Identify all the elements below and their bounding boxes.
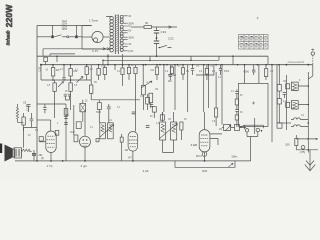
band filter shield box	[239, 83, 269, 126]
arrow feed B+	[169, 26, 173, 28]
electrolytic cap C26	[301, 146, 305, 150]
potentiometer arrow P3	[77, 77, 84, 83]
loop coil L6	[294, 125, 301, 127]
wire: transformer bottom lead	[108, 54, 123, 65]
wire: vertical x286.4	[285, 75, 287, 130]
resistor R6	[54, 80, 56, 83]
wire: bus2	[103, 59, 219, 61]
voltage selector disc	[92, 31, 103, 42]
tube V4 EBC	[199, 130, 210, 152]
resistor R3	[86, 65, 88, 67]
volume control box P2	[142, 81, 144, 86]
speaker LS	[5, 145, 13, 162]
fuse Si 30	[144, 26, 152, 29]
output transformer T2	[14, 148, 22, 158]
main bottom bus	[15, 160, 251, 162]
wire: coil links	[298, 86, 308, 105]
resistor R21 right col	[277, 99, 281, 105]
resistor R23	[120, 137, 123, 142]
wire: extra drops bus1/bus2	[57, 56, 233, 64]
wire: mains lower lead	[37, 36, 51, 38]
resistor R1	[52, 65, 54, 68]
wire: heater rail	[43, 48, 105, 50]
pot arrow P2	[141, 81, 152, 88]
resistor R26 100ohm	[295, 138, 298, 145]
capacitor C33	[154, 31, 159, 33]
IF can D	[171, 122, 177, 140]
resistor R4	[98, 65, 100, 69]
wire: links y75	[168, 74, 214, 76]
RF coil L1	[291, 82, 298, 90]
capacitor C23 above cans	[107, 104, 111, 123]
wire: drops from bus3 mid	[115, 65, 123, 70]
junction dot	[156, 37, 158, 39]
wire: vertical x62.7	[65, 104, 67, 161]
socket bracket	[245, 118, 264, 137]
wire: y99.8 link	[91, 99, 140, 101]
resistor R17	[265, 65, 267, 69]
heater arrows	[103, 48, 110, 50]
resistor R14	[182, 65, 184, 68]
capacitor C18 thick pair	[32, 154, 36, 156]
field winding zigzag upper left	[16, 108, 18, 119]
wire: to voltage selector	[81, 26, 83, 50]
tube V1 grid box	[39, 137, 43, 141]
scan mark left edge	[0, 144, 2, 154]
capacitor C21	[64, 117, 68, 119]
wire: short link	[43, 49, 75, 56]
wire: detector links	[222, 65, 246, 128]
capacitor C13	[150, 105, 153, 107]
tuning arrow across cans AB	[100, 125, 114, 138]
tuning arrow across cans CD	[160, 124, 178, 139]
wire: bus1 HT	[37, 55, 268, 57]
capacitor C24 above V3	[132, 112, 136, 114]
phono socket A	[245, 129, 248, 132]
capacitor C16 left col	[235, 110, 238, 116]
resistor R2	[70, 65, 72, 69]
resistor R18 left col	[235, 99, 238, 105]
V2 right pin box	[96, 139, 99, 142]
junction dots bus3 row	[52, 55, 309, 65]
capacitor C25	[146, 126, 150, 128]
resistor R22 upper left	[23, 113, 25, 117]
potentiometer arrow P1	[58, 82, 64, 88]
IF can A	[100, 123, 106, 139]
wire: rectifier output	[131, 26, 144, 28]
transformer T1 primary winding	[110, 16, 114, 52]
node bus3 start	[40, 64, 42, 66]
stage3 coupling boxes	[146, 97, 150, 104]
resistor R5	[104, 65, 106, 68]
trimmer CT1 (box with X)	[82, 100, 84, 104]
wire: terminal stubs	[53, 26, 77, 36]
wire: corner line 2	[296, 149, 318, 151]
resistor R15	[206, 65, 208, 69]
resistor R11	[135, 65, 137, 68]
IF can B	[108, 123, 114, 139]
switch S2 tone	[160, 45, 172, 47]
resistor R7	[70, 80, 72, 83]
resistor R12	[156, 65, 158, 67]
stray mark	[257, 17, 259, 19]
plus mark center	[252, 102, 255, 105]
junction dots	[257, 64, 259, 66]
transformer secondary taps	[123, 16, 131, 51]
wire: corner bus1 down	[267, 56, 269, 64]
field coil L3	[22, 149, 32, 151]
switch S1 mains	[51, 35, 54, 38]
wire: left main vertical rail	[36, 26, 38, 161]
antenna terminal	[311, 52, 314, 55]
capacitor C19	[30, 113, 34, 127]
wire: loop links	[291, 120, 308, 127]
transformer T1 core	[115, 15, 118, 55]
capacitor C22	[64, 123, 68, 125]
resistor R13	[171, 65, 173, 67]
resistor R16	[149, 93, 153, 103]
wire: can leads	[163, 112, 174, 153]
tube V2 magic eye AM2	[80, 136, 91, 147]
ground arrow	[309, 150, 311, 170]
capacitor C30 near bus1	[44, 57, 48, 61]
capacitor C5 left column	[43, 104, 46, 113]
capacitor C1	[62, 65, 66, 80]
RF coil L2	[291, 101, 298, 109]
voltage table top right	[239, 35, 269, 50]
detector box 2	[235, 125, 240, 131]
coupling box L2b	[286, 102, 290, 107]
wire: antenna jog	[308, 76, 313, 79]
wire: leads into shield box	[245, 65, 259, 84]
resistor R20 right col	[278, 65, 280, 85]
junction dots row y80	[52, 79, 54, 81]
component right col low	[277, 123, 282, 128]
capacitor C11	[191, 65, 194, 75]
phono socket B	[256, 128, 259, 131]
GW loop below bus	[175, 161, 235, 167]
resistor box above cans	[97, 103, 101, 110]
wire: AVC line right	[277, 122, 291, 124]
wire: V1 plate to output transformer	[37, 119, 51, 121]
junction dots bottom bus	[36, 160, 38, 162]
table text marks	[240, 36, 267, 47]
box component left of V2	[74, 135, 78, 142]
capacitor C10	[169, 65, 172, 80]
scattered value labels	[28, 65, 305, 160]
wire: V4 diode leads	[210, 134, 222, 145]
wire: long drops to bottom stages	[164, 65, 214, 112]
wire: vertical x308.3	[307, 72, 309, 153]
transformer T1 secondary windings	[120, 15, 123, 51]
junction dots bus3	[145, 64, 147, 66]
terminal mains plug	[75, 35, 78, 38]
wire: bus end corner up	[250, 137, 252, 161]
wire: corner line 1	[296, 138, 318, 140]
loop coil L5	[294, 118, 301, 120]
capacitor C32	[154, 41, 159, 43]
wire: screen feed line	[41, 65, 91, 80]
resistor R24	[180, 122, 183, 130]
resistor R10	[128, 65, 130, 68]
capacitor C2 pair	[64, 94, 71, 96]
wire: bus3 main/antenna	[40, 64, 313, 66]
wire: x272/x277 drops	[272, 65, 277, 142]
resistor R19 left col	[235, 115, 238, 120]
coil box L4	[76, 122, 81, 129]
wire: bus1 to bus2 corner	[218, 56, 220, 60]
output tube V1 AL4	[46, 131, 56, 153]
wire: filter caps vertical	[156, 27, 158, 56]
wire: grid line stage1	[90, 65, 92, 85]
detector pot box	[224, 125, 231, 131]
resistor R25 above V4	[215, 108, 218, 117]
IF can C	[160, 122, 166, 140]
tube V3 IF pentode	[128, 132, 138, 152]
capacitor C12	[219, 65, 222, 75]
resistor R8	[90, 85, 93, 93]
capacitor C14	[252, 65, 255, 75]
wire: drop x143	[142, 65, 144, 81]
V4 socket circle	[202, 152, 207, 157]
paper noise overlay	[0, 0, 1, 1]
wire: mains top rail	[37, 25, 91, 27]
capacitor C15 left col	[235, 90, 238, 100]
capacitor C17 right col	[283, 93, 287, 99]
capacitor C20	[27, 105, 31, 113]
potentiometer in GW loop	[228, 163, 233, 167]
coupling box L1b	[286, 84, 290, 89]
resistor R9	[121, 68, 124, 75]
transformer tap labels	[128, 15, 134, 53]
